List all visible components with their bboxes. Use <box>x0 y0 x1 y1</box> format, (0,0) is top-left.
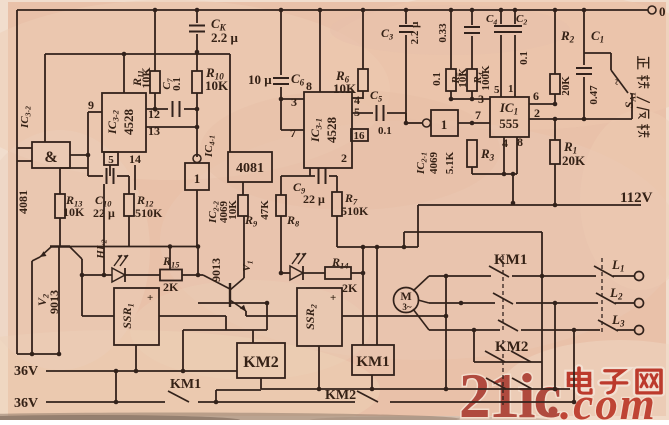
svg-text:14: 14 <box>129 152 141 166</box>
svg-text:7: 7 <box>290 126 296 140</box>
svg-text:510K: 510K <box>341 204 369 218</box>
svg-text:3~: 3~ <box>402 302 412 312</box>
svg-text:0.1: 0.1 <box>518 51 530 65</box>
svg-text:M: M <box>400 289 411 303</box>
svg-text:0.47: 0.47 <box>588 85 600 105</box>
svg-text:~: ~ <box>611 79 623 85</box>
svg-text:20K: 20K <box>560 76 572 96</box>
svg-text:100K: 100K <box>480 65 492 91</box>
svg-text:10K: 10K <box>227 200 239 220</box>
svg-text:5: 5 <box>494 84 500 96</box>
svg-text:8: 8 <box>517 135 523 149</box>
svg-text:KM1: KM1 <box>494 252 527 268</box>
svg-text:7: 7 <box>475 108 481 122</box>
svg-text:5: 5 <box>354 105 360 119</box>
svg-text:12: 12 <box>148 107 160 121</box>
svg-text:112V: 112V <box>620 190 653 206</box>
svg-text:510K: 510K <box>135 206 163 220</box>
svg-text:10 μ: 10 μ <box>248 72 272 87</box>
svg-text:KM2: KM2 <box>243 354 279 371</box>
svg-text:47K: 47K <box>259 200 271 220</box>
svg-text:1: 1 <box>441 117 448 132</box>
svg-text:3: 3 <box>291 95 297 109</box>
svg-text:5: 5 <box>108 154 114 166</box>
svg-text:16: 16 <box>354 130 366 142</box>
svg-text:5.1K: 5.1K <box>444 151 456 174</box>
svg-text:4528: 4528 <box>121 109 136 136</box>
svg-text:13: 13 <box>148 124 160 138</box>
svg-text:2.2 μ: 2.2 μ <box>409 21 421 45</box>
svg-text:+: + <box>330 292 336 304</box>
svg-text:2.2 μ: 2.2 μ <box>211 30 239 45</box>
svg-text:10K: 10K <box>457 68 469 88</box>
svg-text:1: 1 <box>508 83 514 95</box>
svg-text:0.1: 0.1 <box>171 77 183 91</box>
svg-text:21ic: 21ic <box>459 361 561 420</box>
svg-text:2: 2 <box>341 151 347 165</box>
svg-text:KM2: KM2 <box>325 388 356 403</box>
svg-text:0: 0 <box>659 4 666 19</box>
svg-text:2K: 2K <box>342 281 358 295</box>
svg-text:555: 555 <box>499 116 519 131</box>
svg-text:8: 8 <box>306 79 312 93</box>
svg-text:+: + <box>147 292 153 304</box>
svg-text:4069: 4069 <box>428 152 440 175</box>
svg-text:KM1: KM1 <box>356 354 389 370</box>
svg-text:0.1: 0.1 <box>378 125 392 137</box>
svg-text:KM1: KM1 <box>170 377 201 392</box>
svg-text:KM2: KM2 <box>495 339 528 355</box>
svg-text:4528: 4528 <box>324 117 339 144</box>
svg-text:9013: 9013 <box>47 290 61 314</box>
svg-text:36V: 36V <box>14 396 38 411</box>
svg-text:9: 9 <box>88 98 94 112</box>
svg-text:4: 4 <box>502 136 508 150</box>
svg-text:10K: 10K <box>139 67 153 89</box>
svg-text:&: & <box>44 149 57 166</box>
svg-text:10K: 10K <box>205 78 229 93</box>
svg-text:3: 3 <box>478 92 484 106</box>
svg-text:6: 6 <box>533 89 539 103</box>
svg-text:1: 1 <box>194 171 201 186</box>
svg-text:0.33: 0.33 <box>437 23 449 43</box>
svg-text:2: 2 <box>534 106 540 120</box>
svg-text:4081: 4081 <box>16 190 30 214</box>
svg-text:4081: 4081 <box>236 161 264 176</box>
svg-text:10K: 10K <box>63 205 85 219</box>
svg-text:0.1: 0.1 <box>431 72 443 86</box>
svg-text:20K: 20K <box>562 153 586 168</box>
svg-text:9013: 9013 <box>209 258 223 282</box>
svg-text:36V: 36V <box>14 364 38 379</box>
svg-text:2K: 2K <box>163 280 179 294</box>
svg-text:22 μ: 22 μ <box>303 192 325 206</box>
